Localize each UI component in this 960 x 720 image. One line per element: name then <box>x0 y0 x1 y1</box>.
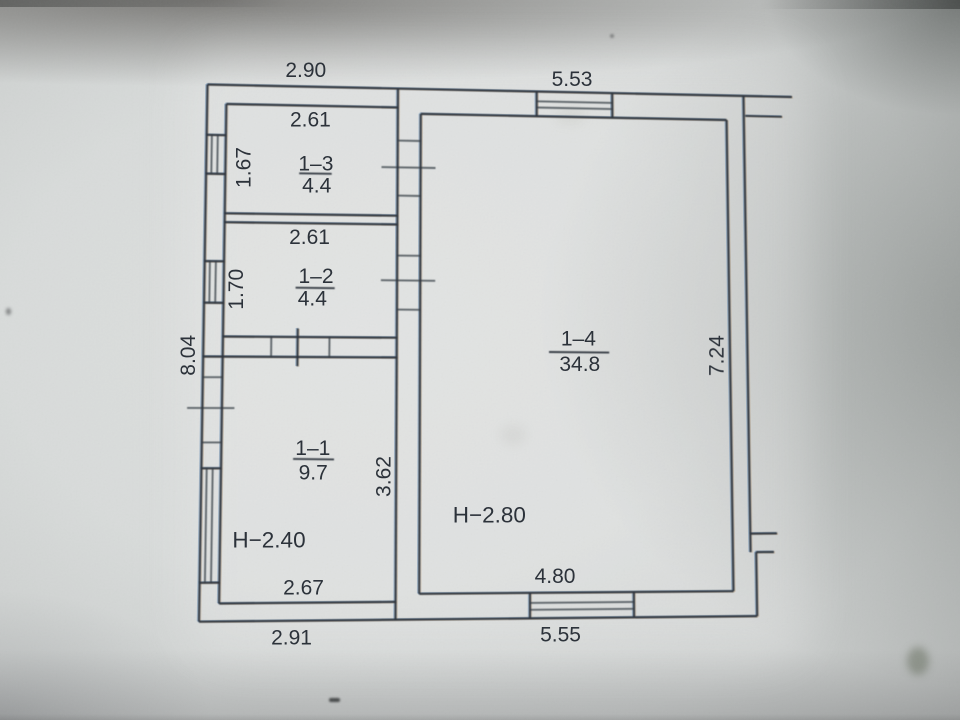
svg-text:8.04: 8.04 <box>177 335 200 376</box>
svg-text:5.53: 5.53 <box>552 68 593 91</box>
svg-text:4.4: 4.4 <box>302 174 332 197</box>
svg-text:H−2.40: H−2.40 <box>232 528 305 553</box>
svg-text:2.90: 2.90 <box>285 59 326 82</box>
svg-text:1.67: 1.67 <box>232 147 255 188</box>
svg-text:H−2.80: H−2.80 <box>453 503 526 528</box>
svg-text:2.61: 2.61 <box>289 226 330 249</box>
svg-text:5.55: 5.55 <box>540 624 581 647</box>
svg-text:2.61: 2.61 <box>290 109 331 132</box>
svg-text:9.7: 9.7 <box>299 462 328 485</box>
svg-text:1–2: 1–2 <box>298 265 333 288</box>
svg-text:3.62: 3.62 <box>373 456 396 497</box>
svg-text:1–1: 1–1 <box>295 437 330 460</box>
svg-text:1–4: 1–4 <box>561 327 596 350</box>
svg-text:34.8: 34.8 <box>559 353 600 376</box>
svg-text:2.91: 2.91 <box>271 627 312 650</box>
svg-text:4.80: 4.80 <box>535 565 576 588</box>
svg-text:4.4: 4.4 <box>298 287 328 310</box>
svg-text:2.67: 2.67 <box>283 577 324 600</box>
svg-text:1.70: 1.70 <box>225 269 248 310</box>
svg-text:7.24: 7.24 <box>706 335 729 376</box>
svg-text:1–3: 1–3 <box>298 153 333 176</box>
